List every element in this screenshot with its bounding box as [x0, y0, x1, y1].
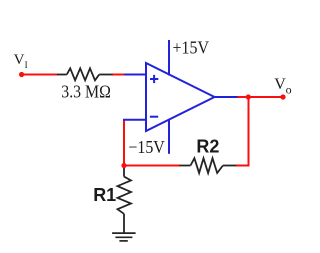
svg-text:R2: R2 — [196, 137, 219, 157]
svg-text:V: V — [274, 76, 286, 93]
svg-text:−15V: −15V — [128, 137, 164, 157]
svg-text:+15V: +15V — [173, 38, 210, 58]
svg-text:R1: R1 — [93, 185, 116, 205]
svg-text:V: V — [14, 52, 25, 68]
svg-text:I: I — [25, 60, 28, 70]
svg-text:o: o — [286, 82, 292, 96]
svg-text:3.3 MΩ: 3.3 MΩ — [61, 81, 111, 101]
